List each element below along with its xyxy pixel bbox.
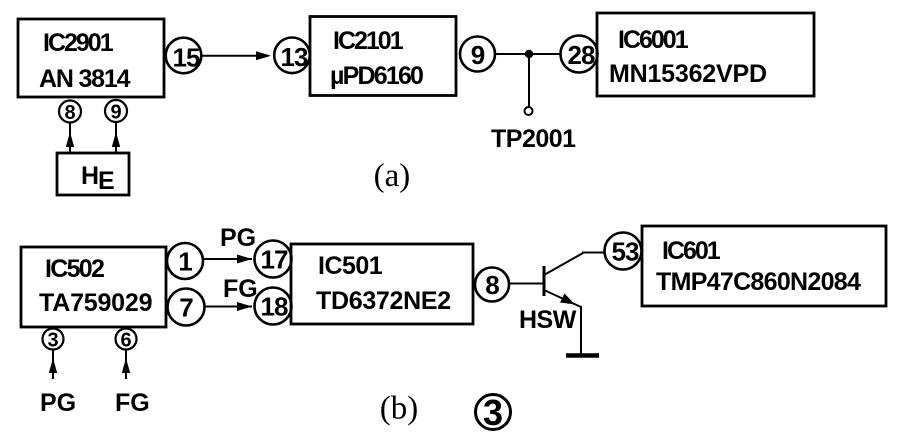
pin circle 53	[605, 233, 642, 270]
svg-text:9: 9	[110, 102, 121, 124]
wire with arrow from pin 1 to pin 17	[203, 255, 252, 264]
svg-text:18: 18	[261, 292, 288, 322]
pin circle 17	[255, 241, 292, 278]
pin circle 15	[166, 38, 202, 74]
emitter wire to ground	[580, 306, 582, 355]
pin circle 9 (hall input)	[105, 100, 127, 124]
svg-text:FG: FG	[223, 275, 258, 303]
pin circle 6 (FG input)	[116, 329, 137, 352]
pin circle 18	[255, 288, 292, 325]
pin circle 3 (PG input)	[43, 329, 64, 352]
svg-text:IC501: IC501	[318, 252, 383, 280]
svg-text:IC2101: IC2101	[333, 27, 404, 55]
svg-text:3: 3	[483, 392, 503, 433]
svg-text:PG: PG	[220, 224, 256, 252]
wire with up arrow from PG to pin 3	[49, 350, 57, 379]
svg-text:FG: FG	[115, 389, 150, 417]
pin circle 13	[274, 38, 310, 74]
IC block IC601 / TMP47C860N2084	[642, 226, 886, 306]
svg-text:9: 9	[471, 40, 485, 70]
svg-text:28: 28	[568, 40, 595, 70]
svg-text:IC2901: IC2901	[43, 29, 114, 57]
svg-text:(a): (a)	[374, 158, 411, 194]
svg-text:TMP47C860N2084: TMP47C860N2084	[656, 268, 861, 296]
svg-text:E: E	[98, 167, 115, 195]
svg-text:H: H	[81, 162, 99, 190]
svg-text:7: 7	[179, 293, 193, 323]
wire with up arrow from HE to pin 9	[112, 122, 120, 153]
svg-text:µPD6160: µPD6160	[330, 62, 423, 90]
svg-text:15: 15	[173, 43, 200, 73]
IC block IC502 / TA759029	[21, 247, 166, 327]
wire with up arrow from FG to pin 6	[122, 350, 130, 379]
test point TP2001 open circle	[525, 107, 533, 115]
svg-text:3: 3	[47, 330, 58, 352]
transistor HSW (NPN)	[544, 253, 604, 308]
svg-text:8: 8	[485, 270, 499, 300]
page number circled 3	[476, 392, 511, 433]
wire with arrow from pin 7 to pin 18	[205, 302, 253, 311]
svg-text:TA759029: TA759029	[39, 289, 152, 317]
hall element block HE	[57, 153, 129, 195]
wire from pin 8 to transistor base	[509, 283, 544, 285]
svg-text:PG: PG	[40, 389, 76, 417]
svg-text:IC601: IC601	[662, 237, 721, 265]
svg-text:IC502: IC502	[45, 255, 104, 283]
svg-text:TD6372NE2: TD6372NE2	[316, 287, 451, 315]
svg-text:1: 1	[178, 247, 192, 277]
IC block IC501 / TD6372NE2	[291, 244, 473, 324]
ground	[566, 353, 599, 358]
svg-text:13: 13	[281, 42, 308, 72]
svg-text:17: 17	[261, 245, 288, 275]
junction dot	[525, 50, 533, 58]
pin circle 7	[168, 289, 205, 326]
svg-text:IC6001: IC6001	[618, 26, 689, 54]
wire with up arrow from HE to pin 8	[66, 123, 74, 154]
svg-text:(b): (b)	[380, 391, 418, 427]
svg-text:MN15362VPD: MN15362VPD	[609, 60, 767, 88]
pin circle 28	[561, 36, 598, 73]
svg-text:TP2001: TP2001	[491, 125, 576, 153]
pin circle 8 (hall input)	[59, 101, 81, 125]
svg-text:AN 3814: AN 3814	[39, 65, 131, 93]
wire with arrow from pin 15 to pin 13	[202, 51, 272, 60]
wire from pin 9 to pin 28	[495, 53, 561, 55]
svg-text:8: 8	[64, 102, 75, 124]
test point stub wire	[528, 54, 530, 107]
svg-text:HSW: HSW	[519, 306, 577, 334]
IC block IC6001 / MN15362VPD	[597, 13, 814, 96]
svg-text:53: 53	[612, 237, 639, 267]
pin circle 9	[460, 37, 495, 72]
IC block IC2901 / AN3814	[18, 19, 164, 97]
IC block IC2101 / uPD6160	[310, 17, 456, 96]
pin circle 1	[167, 243, 203, 279]
pin circle 8 (HSW drive)	[475, 268, 509, 302]
svg-text:6: 6	[120, 330, 131, 352]
